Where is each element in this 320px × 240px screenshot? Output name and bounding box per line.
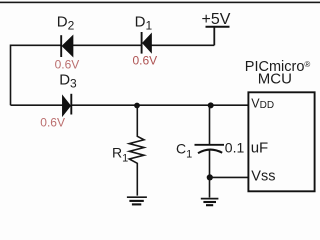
node junction dot R1 top [134,103,140,109]
wire top rail left segment [11,44,61,46]
ground under R1 [127,197,147,204]
node junction dot Vss [207,174,213,180]
diode D3 [63,94,72,116]
node junction dot C1 top [208,102,214,108]
wire left vertical [10,45,12,106]
wire Vss to MCU [210,176,248,178]
capacitor C1 [195,105,225,177]
svg-text:0.6V: 0.6V [133,53,158,67]
wire top rail right segment [151,44,214,46]
svg-text:uF: uF [251,140,269,157]
diode D2 [61,35,73,57]
ground under C1 [201,199,219,206]
MCU box U1 [248,92,314,191]
svg-text:0.1: 0.1 [225,140,245,156]
svg-text:+5V: +5V [202,11,231,28]
wire C1 ground lead [209,177,211,197]
wire top rail middle segment [73,44,141,46]
svg-text:MCU: MCU [258,71,292,88]
+5V supply symbol [206,27,230,46]
resistor R1 [129,105,144,195]
diode D1 [142,32,152,54]
svg-text:0.6V: 0.6V [55,57,80,71]
wire row2 right segment [71,104,247,106]
svg-text:Vss: Vss [251,169,275,185]
wire row2 left segment [11,104,63,106]
svg-text:0.6V: 0.6V [40,115,65,129]
